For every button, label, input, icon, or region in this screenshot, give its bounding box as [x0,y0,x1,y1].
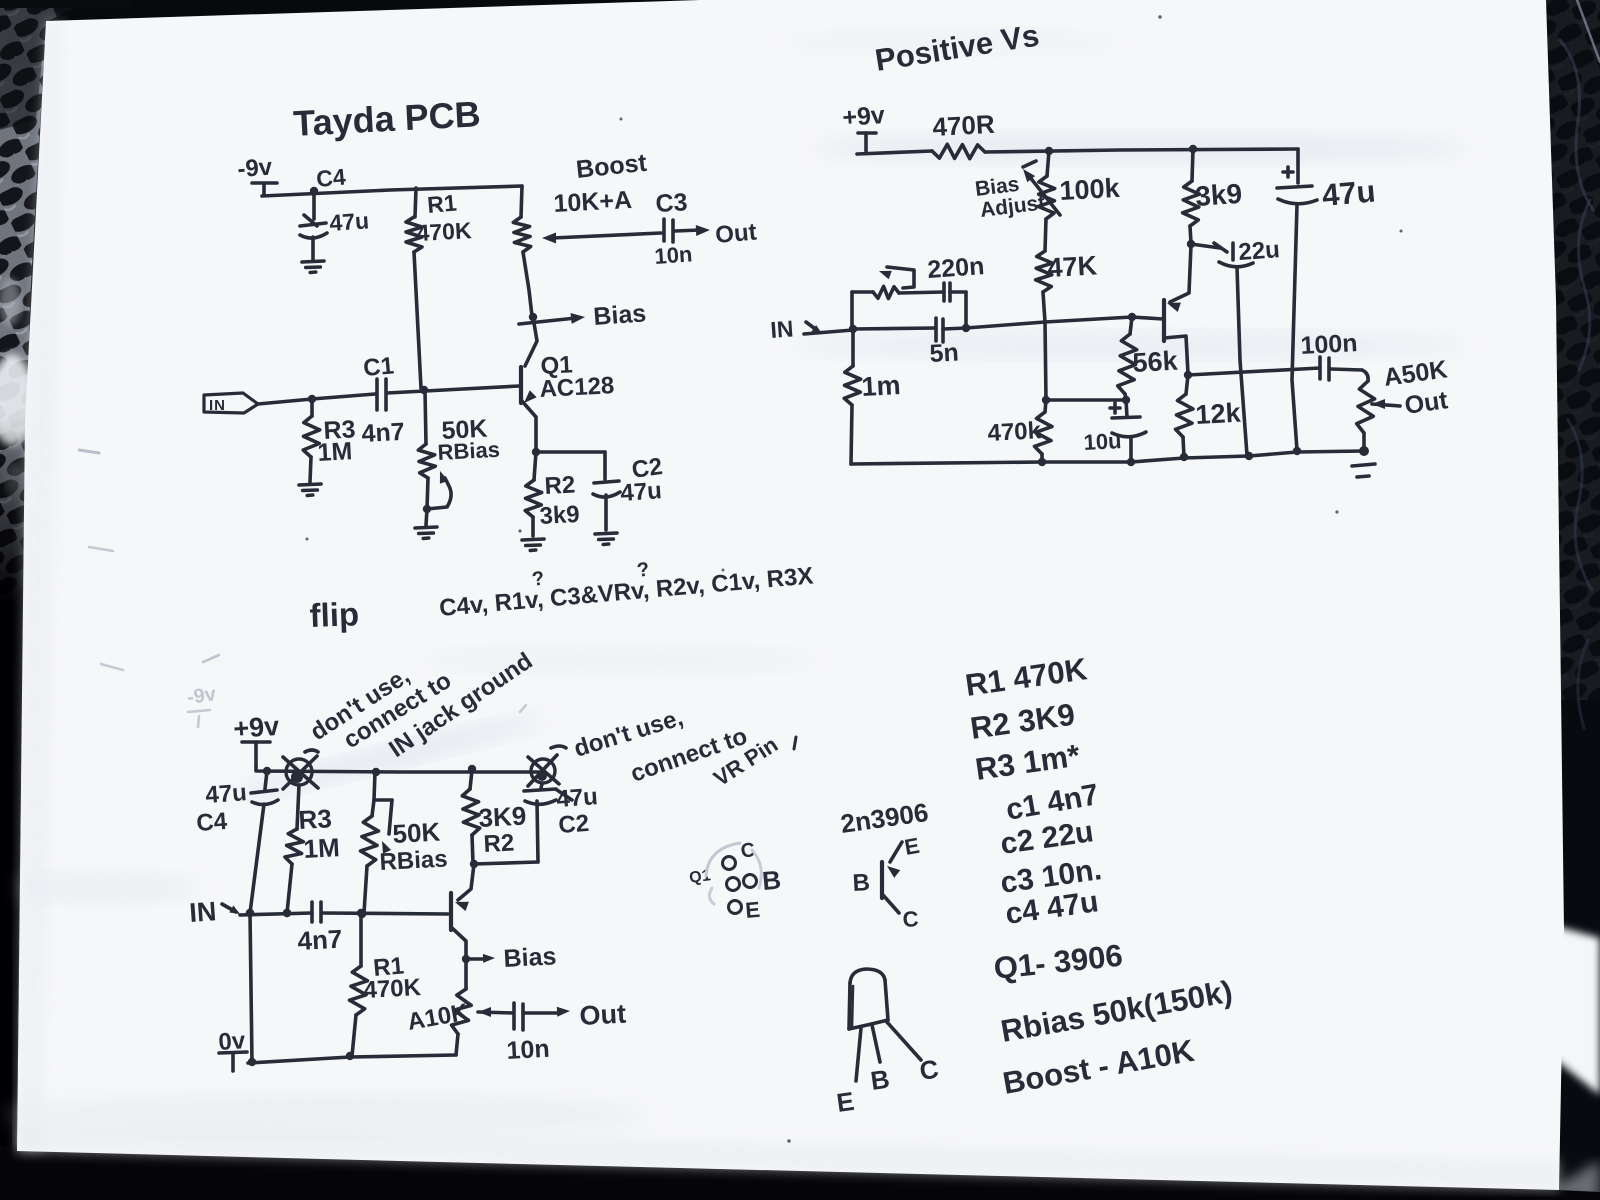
svg-text:-9v: -9v [186,683,219,709]
svg-text:C4: C4 [315,163,347,191]
svg-text:100k: 100k [1059,173,1122,206]
svg-text:Out: Out [579,999,627,1031]
svg-text:1m: 1m [861,370,902,402]
svg-text:+9v: +9v [841,101,885,132]
svg-text:R3: R3 [298,803,333,835]
svg-text:12k: 12k [1195,398,1243,430]
svg-text:47u: 47u [205,779,248,809]
svg-text:10n: 10n [506,1035,551,1065]
svg-text:-9v: -9v [237,154,274,183]
svg-text:50K: 50K [392,817,441,849]
svg-text:22u: 22u [1238,236,1281,266]
svg-text:3k9: 3k9 [539,501,580,530]
svg-text:E: E [744,897,761,923]
svg-text:Bias: Bias [503,942,557,973]
svg-text:AC128: AC128 [539,372,615,403]
svg-text:flip: flip [309,595,360,634]
svg-text:C: C [902,906,919,932]
svg-text:C2: C2 [558,810,590,839]
svg-text:3K9: 3K9 [478,801,527,833]
svg-text:Bias: Bias [592,299,647,331]
svg-text:470k: 470k [987,417,1042,447]
svg-text:470K: 470K [363,974,422,1004]
svg-text:R2: R2 [544,471,576,500]
svg-text:C1: C1 [362,352,395,382]
svg-text:56k: 56k [1132,346,1180,378]
svg-text:47u: 47u [329,207,370,236]
svg-text:1M: 1M [303,832,341,864]
svg-text:3k9: 3k9 [1194,178,1243,212]
svg-text:1M: 1M [317,437,353,467]
svg-text:IN: IN [188,896,217,928]
svg-text:B: B [852,869,871,897]
svg-text:100n: 100n [1300,329,1358,360]
svg-text:IN: IN [770,315,795,343]
svg-text:R1: R1 [426,189,458,217]
svg-text:5n: 5n [929,339,960,368]
svg-text:10K+A: 10K+A [553,186,633,218]
svg-text:47K: 47K [1047,250,1099,283]
svg-text:47u: 47u [556,783,599,813]
svg-text:B: B [761,864,782,896]
svg-text:R2: R2 [483,829,515,858]
svg-text:470K: 470K [416,217,473,246]
svg-text:10n: 10n [654,241,694,269]
svg-text:470R: 470R [932,109,996,142]
svg-text:10u: 10u [1083,428,1122,455]
svg-text:+9v: +9v [232,711,280,744]
svg-text:47u: 47u [620,477,663,507]
svg-text:Out: Out [714,218,758,248]
svg-text:4n7: 4n7 [361,418,406,448]
svg-text:47u: 47u [1321,173,1377,213]
svg-text:IN: IN [209,397,226,414]
svg-text:C3: C3 [655,188,688,218]
svg-text:4n7: 4n7 [297,924,343,956]
svg-text:RBias: RBias [379,845,448,876]
svg-text:C4: C4 [196,808,229,837]
svg-text:RBias: RBias [437,437,501,465]
svg-text:220n: 220n [926,252,985,284]
